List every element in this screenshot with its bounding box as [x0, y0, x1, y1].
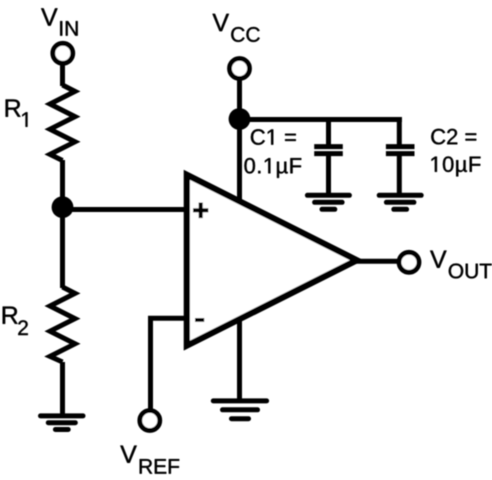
op-amp minus input marker — [195, 318, 204, 322]
junction dot node A — [52, 196, 74, 218]
terminal V_IN — [53, 43, 73, 63]
label V_CC — [213, 14, 260, 42]
resistor R1 — [50, 85, 75, 161]
terminal V_REF — [140, 411, 160, 431]
label V_REF — [120, 446, 179, 474]
wire node A to R2 — [60, 206, 65, 288]
wire R2 to ground — [60, 362, 65, 416]
ground below C2 — [379, 195, 421, 209]
wire op-amp output — [355, 259, 400, 264]
label V_IN — [41, 8, 77, 35]
wire V_IN terminal to R1 — [60, 53, 65, 86]
wire V_CC terminal to junction — [237, 69, 242, 121]
junction dot node B — [229, 108, 251, 130]
wire rail to C1 — [326, 120, 331, 147]
wire node A to op-amp noninverting input — [63, 207, 188, 212]
label C1 value — [244, 129, 301, 178]
label R2 — [3, 307, 28, 335]
ground below R2 — [41, 416, 84, 430]
capacitor C1 — [314, 147, 343, 154]
wire rail corner to C2 — [397, 117, 402, 146]
label C2 value — [431, 129, 480, 177]
op-amp plus input marker — [193, 203, 208, 219]
op-amp U1 — [187, 175, 357, 346]
capacitor C2 — [386, 147, 415, 154]
ground op-amp — [213, 401, 266, 419]
wire C2 to ground — [397, 154, 402, 196]
wire V_REF to op-amp inverting input — [151, 318, 188, 410]
ground below C1 — [307, 195, 349, 209]
terminal V_OUT — [399, 252, 419, 272]
resistor R2 — [50, 287, 75, 362]
wire R1 to node A — [60, 160, 65, 212]
wire C1 to ground — [326, 154, 331, 196]
label R1 — [6, 100, 28, 127]
terminal V_CC — [230, 59, 250, 79]
label V_OUT — [430, 251, 492, 279]
wire junction to op-amp supply pin — [237, 119, 242, 204]
wire bypass rail — [240, 117, 402, 122]
wire op-amp ground pin — [237, 315, 242, 401]
